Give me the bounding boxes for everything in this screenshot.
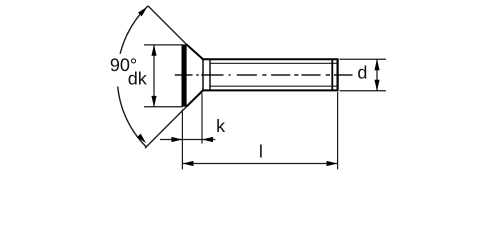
shank top edge	[202, 58, 339, 60]
45deg extension line top	[148, 6, 187, 45]
dk extension line bottom	[144, 106, 183, 108]
d extension line top	[340, 58, 387, 60]
arc arrowhead bottom	[137, 134, 146, 143]
l extension line right (screw end, below)	[337, 92, 339, 169]
thread end chamfer line	[331, 59, 333, 90]
l arrow left	[182, 161, 193, 166]
45deg extension line bottom	[145, 106, 187, 148]
label d	[358, 65, 366, 78]
centerline (dash-dot axis)	[175, 74, 353, 76]
thread root top	[210, 62, 338, 64]
90 degree arc	[117, 6, 148, 147]
thread root bottom	[210, 85, 338, 87]
dk arrow down	[151, 96, 156, 107]
label k	[217, 119, 225, 132]
label halo (text background over arc)	[104, 54, 150, 87]
label 90deg	[111, 58, 136, 71]
slot (head face bar)	[182, 44, 187, 106]
head-shank junction line	[202, 59, 204, 90]
shank bottom edge	[202, 89, 339, 91]
k extension line right	[201, 93, 203, 143]
d arrow down	[374, 80, 379, 91]
d arrow up	[374, 59, 379, 70]
l arrow right	[327, 161, 338, 166]
dk arrow up	[151, 45, 156, 56]
dk dimension line	[153, 45, 155, 107]
k extension line left (shared with l)	[181, 109, 183, 169]
k arrow left (outside, pointing right)	[171, 137, 182, 142]
d extension line bottom	[340, 90, 387, 92]
thread start line	[209, 59, 211, 90]
label l	[260, 144, 262, 157]
screw end line	[337, 59, 339, 90]
arc arrowhead top	[138, 7, 147, 16]
k dimension line	[160, 139, 215, 141]
k arrow right (outside, pointing left)	[202, 137, 213, 142]
d dimension line	[376, 59, 378, 91]
label dk	[129, 71, 147, 84]
cone top edge	[186, 44, 203, 59]
dk extension line top	[144, 44, 183, 46]
l dimension line	[182, 163, 337, 165]
cone bottom edge	[186, 90, 203, 106]
